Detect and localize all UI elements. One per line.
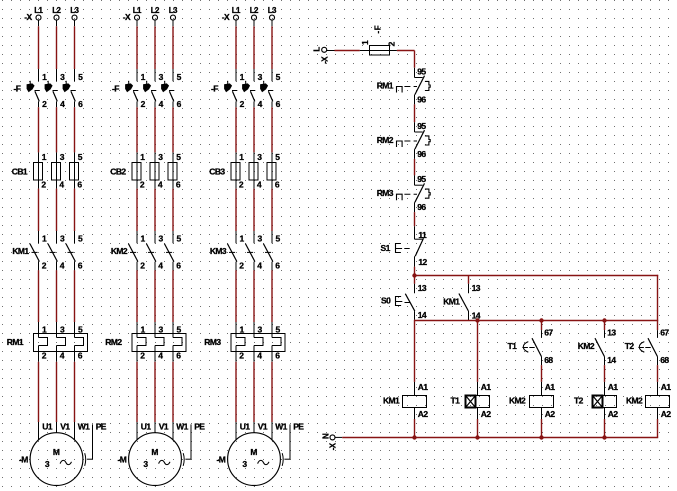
thermal relay contact RM3 (NC, pins 95/96) bbox=[377, 174, 431, 212]
stop button S1 (NC, pins 11/12) bbox=[381, 226, 428, 267]
fuse -F (control) pins 1/2 bbox=[360, 25, 397, 55]
fuse CB1 pole 2 pins 3/4 bbox=[52, 152, 65, 190]
svg-text:RM3: RM3 bbox=[377, 188, 394, 198]
thermal overload RM2 body bbox=[132, 334, 186, 352]
svg-text:M: M bbox=[53, 447, 60, 457]
svg-text:68: 68 bbox=[660, 355, 669, 365]
wire CB1 to KM1 pole 3 bbox=[74, 189, 76, 231]
svg-text:T1: T1 bbox=[451, 396, 461, 406]
wire L1 to -F (branch 1) bbox=[38, 26, 40, 69]
svg-text:L2: L2 bbox=[250, 6, 259, 15]
svg-text:96: 96 bbox=[417, 202, 426, 212]
motor -M (branch 3) body bbox=[228, 433, 281, 486]
svg-text:L2: L2 bbox=[151, 6, 160, 15]
thermal element RM2 pole 1 pins 1/2 bbox=[137, 322, 146, 362]
node D junction (KM2 contact branch) bbox=[602, 318, 606, 322]
contactor KM3 pole 1 pins 1/2 bbox=[227, 231, 244, 270]
wire coil KM1 to N rail bbox=[414, 419, 416, 438]
svg-text:-M: -M bbox=[217, 454, 226, 464]
motor -M (branch 1) terminals U1 V1 W1 bbox=[39, 422, 91, 441]
svg-text:V1: V1 bbox=[159, 422, 169, 432]
svg-text:95: 95 bbox=[417, 67, 426, 77]
wire -F to CB2 pole 1 bbox=[136, 107, 138, 152]
motor -M (branch 3) terminals U1 V1 W1 bbox=[236, 422, 288, 441]
motor -M (branch 2) body bbox=[129, 433, 182, 486]
PE earth connection (branch 2) bbox=[183, 422, 205, 466]
PE earth connection (branch 1) bbox=[85, 422, 107, 466]
svg-text:A2: A2 bbox=[661, 409, 672, 419]
wire KM2 contact to coil below bbox=[604, 365, 606, 382]
fuse CB2 pole 3 pins 5/6 bbox=[168, 152, 181, 190]
coil KM2 (pins A1/A2) bbox=[626, 382, 671, 419]
svg-text:13: 13 bbox=[607, 327, 616, 337]
contactor KM3 pole 2 pins 3/4 bbox=[245, 231, 262, 270]
wire L1 to -F (branch 3) bbox=[235, 26, 237, 69]
wire KM2 to RM2 pole 3 bbox=[172, 270, 174, 322]
motor -M (branch 2) terminals U1 V1 W1 bbox=[137, 422, 189, 441]
svg-text:-F: -F bbox=[112, 84, 119, 94]
wire KM3 to RM3 pole 3 bbox=[271, 270, 273, 322]
svg-text:KM1: KM1 bbox=[383, 396, 400, 406]
wire rail 2 bbox=[414, 319, 416, 322]
switch -F pole 1 (branch 3) pins 1/2 bbox=[224, 69, 245, 109]
wire -F to CB1 pole 3 bbox=[74, 107, 76, 152]
contactor KM1 pole 1 pins 1/2 bbox=[30, 231, 47, 270]
wire L1 to -F (branch 2) bbox=[136, 26, 138, 69]
svg-text:T2: T2 bbox=[625, 341, 635, 351]
svg-text:A1: A1 bbox=[418, 382, 429, 392]
svg-text:67: 67 bbox=[544, 327, 553, 337]
contactor KM1 auxiliary contact (NO, pins 13/14) bbox=[443, 276, 481, 321]
switch -F pole 2 (branch 1) pins 3/4 bbox=[45, 69, 66, 109]
svg-text:-X: -X bbox=[222, 12, 230, 22]
svg-text:-F: -F bbox=[374, 25, 383, 34]
fuse CB3 pole 2 pins 3/4 bbox=[249, 152, 262, 190]
wire RM3 to motor -M (branch 3) pole 2 bbox=[253, 362, 255, 422]
wire CB2 to KM2 pole 3 bbox=[172, 189, 174, 231]
svg-text:M: M bbox=[151, 447, 158, 457]
wire L2 to -F (branch 1) bbox=[56, 26, 58, 69]
wire KM3 to RM3 pole 2 bbox=[253, 270, 255, 322]
terminal L3 (branch 2) bbox=[169, 6, 178, 27]
svg-text:KM1: KM1 bbox=[12, 246, 29, 256]
node A junction bbox=[412, 273, 416, 277]
wire KM1 to RM1 pole 1 bbox=[38, 270, 40, 322]
svg-text:-M: -M bbox=[19, 454, 28, 464]
wire RM2 to motor -M (branch 2) pole 2 bbox=[154, 362, 156, 422]
svg-text:V1: V1 bbox=[60, 422, 70, 432]
terminal L1 (branch 3) bbox=[232, 6, 241, 27]
wire T1 contact to coil below bbox=[541, 365, 543, 382]
fuse CB2 pole 1 pins 1/2 bbox=[132, 152, 145, 190]
wire L3 to -F (branch 2) bbox=[172, 26, 174, 69]
thermal element RM1 pole 2 pins 3/4 bbox=[57, 322, 66, 362]
wire KM1 to RM1 pole 2 bbox=[56, 270, 58, 322]
svg-text:U1: U1 bbox=[141, 422, 152, 432]
svg-text:W1: W1 bbox=[78, 422, 90, 432]
wire -F to CB1 pole 1 bbox=[38, 107, 40, 152]
contactor KM3 pole 3 pins 5/6 bbox=[263, 231, 280, 270]
svg-text:CB1: CB1 bbox=[12, 167, 28, 177]
wire rail 2 to KM1 coil bbox=[414, 321, 416, 382]
thermal element RM1 pole 1 pins 1/2 bbox=[39, 322, 48, 362]
svg-text:L: L bbox=[313, 47, 322, 52]
wire coil KM2 to N rail bbox=[541, 419, 543, 438]
node C junction (T1 contact branch) bbox=[539, 318, 543, 322]
svg-text:PE: PE bbox=[293, 422, 304, 432]
svg-text:KM3: KM3 bbox=[210, 246, 227, 256]
thermal element RM2 pole 3 pins 5/6 bbox=[173, 322, 182, 362]
wire CB3 to KM3 pole 1 bbox=[235, 189, 237, 231]
wire L2 to -F (branch 2) bbox=[154, 26, 156, 69]
thermal element RM3 pole 3 pins 5/6 bbox=[272, 322, 281, 362]
fuse CB2 pole 2 pins 3/4 bbox=[150, 152, 163, 190]
wire fuse -F to RM1 contact bbox=[397, 50, 415, 52]
svg-text:CB3: CB3 bbox=[209, 167, 225, 177]
wire -F to CB2 pole 2 bbox=[154, 107, 156, 152]
T2 timed contact (NO, pins 67/68) bbox=[625, 321, 670, 366]
contactor KM2 pole 1 pins 1/2 bbox=[128, 231, 145, 270]
svg-text:95: 95 bbox=[417, 121, 426, 131]
fuse CB1 pole 1 pins 1/2 bbox=[34, 152, 47, 190]
switch -F pole 3 (branch 1) pins 5/6 bbox=[63, 69, 84, 109]
svg-text:A1: A1 bbox=[608, 382, 619, 392]
wire KM1 to RM1 pole 3 bbox=[74, 270, 76, 322]
svg-text:-X: -X bbox=[123, 12, 131, 22]
svg-text:KM2: KM2 bbox=[578, 341, 595, 351]
svg-text:A2: A2 bbox=[545, 409, 556, 419]
switch -F pole 1 (branch 1) pins 1/2 bbox=[27, 69, 47, 109]
svg-text:T2: T2 bbox=[574, 396, 584, 406]
wire CB3 to KM3 pole 2 bbox=[253, 189, 255, 231]
fuse CB3 pole 1 pins 1/2 bbox=[231, 152, 244, 190]
svg-text:N: N bbox=[321, 433, 330, 439]
wire rail 2 to T1 coil bbox=[477, 321, 479, 382]
svg-text:13: 13 bbox=[418, 283, 427, 293]
wire coil T1 to N rail bbox=[477, 419, 479, 438]
svg-text:RM1: RM1 bbox=[7, 337, 24, 347]
svg-text:-X: -X bbox=[24, 12, 32, 22]
svg-text:L3: L3 bbox=[268, 6, 277, 15]
wire coil KM2 to N rail bbox=[657, 419, 659, 438]
wire CB1 to KM1 pole 2 bbox=[56, 189, 58, 231]
wire rail 1 (node A to T2 branch) bbox=[415, 275, 659, 277]
svg-text:RM2: RM2 bbox=[377, 135, 394, 145]
svg-text:RM1: RM1 bbox=[377, 81, 394, 91]
wire RM2 to RM3 contact bbox=[414, 159, 416, 176]
fuse CB3 pole 3 pins 5/6 bbox=[267, 152, 280, 190]
node F junction (T1 coil to N) bbox=[475, 435, 479, 439]
svg-text:L1: L1 bbox=[34, 6, 43, 15]
terminal L1 (branch 2) bbox=[133, 6, 142, 27]
svg-text:RM2: RM2 bbox=[105, 337, 122, 347]
svg-text:L3: L3 bbox=[70, 6, 79, 15]
svg-text:L2: L2 bbox=[52, 6, 61, 15]
wire -F to CB2 pole 3 bbox=[172, 107, 174, 152]
svg-text:V1: V1 bbox=[258, 422, 268, 432]
thermal element RM3 pole 2 pins 3/4 bbox=[254, 322, 263, 362]
thermal element RM1 pole 3 pins 5/6 bbox=[75, 322, 84, 362]
wire RM2 to motor -M (branch 2) pole 3 bbox=[172, 362, 174, 422]
wire -F to CB3 pole 1 bbox=[235, 107, 237, 152]
svg-text:RM3: RM3 bbox=[204, 337, 221, 347]
PE earth connection (branch 3) bbox=[282, 422, 304, 466]
start button S0 (NO, pins 13/14) bbox=[381, 276, 427, 320]
switch -F pole 2 (branch 3) pins 3/4 bbox=[242, 69, 263, 109]
wire coil T2 to N rail bbox=[604, 419, 606, 438]
contactor KM2 pole 2 pins 3/4 bbox=[146, 231, 163, 270]
svg-text:A2: A2 bbox=[481, 409, 492, 419]
svg-text:L1: L1 bbox=[133, 6, 142, 15]
svg-text:L1: L1 bbox=[232, 6, 241, 15]
contactor KM1 pole 3 pins 5/6 bbox=[66, 231, 83, 270]
terminal L (-X) control supply bbox=[313, 47, 335, 64]
wire L3 to -F (branch 1) bbox=[74, 26, 76, 69]
wire T2 contact to coil below bbox=[657, 365, 659, 382]
T1 timed contact (NO, pins 67/68) bbox=[508, 321, 554, 366]
node G junction (KM2 coil to N) bbox=[539, 435, 543, 439]
node H junction (T2 coil to N) bbox=[602, 435, 606, 439]
svg-text:A2: A2 bbox=[418, 409, 429, 419]
switch -F pole 1 (branch 2) pins 1/2 bbox=[125, 69, 146, 109]
switch -F pole 3 (branch 3) pins 5/6 bbox=[260, 69, 281, 109]
wire -F to CB1 pole 2 bbox=[56, 107, 58, 152]
wire -F to CB3 pole 3 bbox=[271, 107, 273, 152]
svg-text:W1: W1 bbox=[275, 422, 287, 432]
svg-text:67: 67 bbox=[660, 327, 669, 337]
svg-text:CB2: CB2 bbox=[110, 167, 126, 177]
switch -F pole 2 (branch 2) pins 3/4 bbox=[143, 69, 164, 109]
svg-text:-F: -F bbox=[211, 84, 218, 94]
svg-text:PE: PE bbox=[194, 422, 205, 432]
terminal L3 (branch 3) bbox=[268, 6, 277, 27]
svg-text:KM2: KM2 bbox=[509, 396, 526, 406]
svg-text:KM2: KM2 bbox=[626, 396, 643, 406]
svg-text:KM2: KM2 bbox=[111, 246, 128, 256]
svg-text:L3: L3 bbox=[169, 6, 178, 15]
wire RM3 to motor -M (branch 3) pole 3 bbox=[271, 362, 273, 422]
svg-text:S1: S1 bbox=[381, 243, 391, 253]
thermal element RM3 pole 1 pins 1/2 bbox=[236, 322, 245, 362]
svg-text:A1: A1 bbox=[545, 382, 556, 392]
wire KM2 to RM2 pole 2 bbox=[154, 270, 156, 322]
terminal L3 (branch 1) bbox=[70, 6, 79, 27]
switch -F pole 3 (branch 2) pins 5/6 bbox=[161, 69, 182, 109]
svg-text:-M: -M bbox=[118, 454, 127, 464]
svg-text:13: 13 bbox=[472, 283, 481, 293]
thermal overload RM1 body bbox=[34, 334, 88, 352]
svg-text:U1: U1 bbox=[42, 422, 53, 432]
terminal L2 (branch 2) bbox=[151, 6, 160, 27]
wire RM3 to S1 bbox=[414, 212, 416, 226]
svg-text:A1: A1 bbox=[661, 382, 672, 392]
thermal element RM2 pole 2 pins 3/4 bbox=[155, 322, 164, 362]
wire KM2 to RM2 pole 1 bbox=[136, 270, 138, 322]
svg-text:W1: W1 bbox=[176, 422, 188, 432]
fuse CB1 pole 3 pins 5/6 bbox=[70, 152, 83, 190]
wire S1 to node A bbox=[414, 267, 416, 276]
svg-text:KM1: KM1 bbox=[443, 297, 460, 307]
svg-text:96: 96 bbox=[417, 94, 426, 104]
wire RM1 to motor -M (branch 1) pole 2 bbox=[56, 362, 58, 422]
svg-text:M: M bbox=[250, 447, 257, 457]
wire -F to CB3 pole 2 bbox=[253, 107, 255, 152]
svg-text:S0: S0 bbox=[381, 296, 391, 306]
wire RM2 to motor -M (branch 2) pole 1 bbox=[136, 362, 138, 422]
svg-text:12: 12 bbox=[418, 257, 427, 267]
node E junction (KM1 coil to N) bbox=[412, 435, 416, 439]
terminal L2 (branch 1) bbox=[52, 6, 61, 27]
terminal L2 (branch 3) bbox=[250, 6, 259, 27]
wire L3 to -F (branch 3) bbox=[271, 26, 273, 69]
node B junction (T1 coil branch) bbox=[475, 318, 479, 322]
wire L2 to -F (branch 3) bbox=[253, 26, 255, 69]
wire RM1 to RM2 contact bbox=[414, 104, 416, 122]
svg-text:14: 14 bbox=[607, 355, 616, 365]
thermal overload RM3 body bbox=[231, 334, 285, 352]
terminal L1 (branch 1) bbox=[34, 6, 43, 27]
svg-text:95: 95 bbox=[417, 174, 426, 184]
contactor KM2 pole 3 pins 5/6 bbox=[164, 231, 181, 270]
svg-text:U1: U1 bbox=[240, 422, 251, 432]
coil KM2 (pins A1/A2) bbox=[509, 382, 555, 419]
motor -M (branch 1) body bbox=[30, 433, 83, 486]
coil T1 (pins A1/A2) with timer box bbox=[451, 382, 492, 419]
wire bottom N rail bbox=[342, 437, 658, 439]
svg-text:-F: -F bbox=[14, 84, 21, 94]
wire RM1 to motor -M (branch 1) pole 3 bbox=[74, 362, 76, 422]
wire RM1 to motor -M (branch 1) pole 1 bbox=[38, 362, 40, 422]
svg-text:14: 14 bbox=[418, 310, 427, 320]
coil KM1 (pins A1/A2) bbox=[383, 382, 428, 419]
wire KM3 to RM3 pole 1 bbox=[235, 270, 237, 322]
wire RM3 to motor -M (branch 3) pole 1 bbox=[235, 362, 237, 422]
contactor KM1 pole 2 pins 3/4 bbox=[48, 231, 65, 270]
svg-text:A2: A2 bbox=[608, 409, 619, 419]
svg-text:11: 11 bbox=[418, 230, 427, 240]
wire CB2 to KM2 pole 2 bbox=[154, 189, 156, 231]
svg-text:68: 68 bbox=[544, 355, 553, 365]
svg-text:T1: T1 bbox=[508, 341, 518, 351]
thermal relay contact RM2 (NC, pins 95/96) bbox=[377, 121, 431, 159]
svg-text:PE: PE bbox=[96, 422, 107, 432]
wire terminal L to fuse -F bbox=[335, 50, 360, 52]
svg-text:96: 96 bbox=[417, 149, 426, 159]
thermal relay contact RM1 (NC, pins 95/96) bbox=[377, 67, 431, 105]
wire CB2 to KM2 pole 1 bbox=[136, 189, 138, 231]
svg-text:A1: A1 bbox=[481, 382, 492, 392]
coil T2 (pins A1/A2) with timer box bbox=[574, 382, 618, 419]
KM2 auxiliary contact (NO, pins 13/14) bbox=[578, 321, 617, 366]
wire CB1 to KM1 pole 1 bbox=[38, 189, 40, 231]
terminal N (-X) control return bbox=[321, 433, 342, 450]
wire CB3 to KM3 pole 3 bbox=[271, 189, 273, 231]
